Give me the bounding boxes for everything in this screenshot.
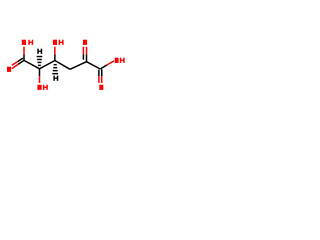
double bond C5=O vertical (ketone) [83,47,86,62]
atom O (below C6 double bond) square [99,85,103,90]
atom O (OH above C3) square [53,40,57,45]
atom O (ketone above C5) square [83,40,87,45]
hash wedge C2-H (4 dashes, widest near H above) [37,56,43,66]
atom O (left C1=O) square [7,67,11,72]
atom H (OH above C3) [59,40,64,45]
hash wedge C3-H (4 dashes, widest near H below) [52,64,58,74]
bond C6-OH diagonal up-right [100,61,114,69]
double bond C6=O vertical down [99,69,102,83]
bond C2-OH vertical down [39,69,41,83]
bond C1-C2 [24,60,40,68]
atom H (right OH) [120,58,125,63]
atom O (right OH) square [115,58,119,63]
atom O (OH below C2) square [37,85,41,90]
bond C3-C4 [55,61,70,70]
atom O (top-left OH) square [22,40,26,45]
double bond C1=O diagonal [12,58,24,69]
bond C2-C3 [40,61,55,69]
atom H (top-left OH) [28,40,33,45]
bond C3-OH vertical up [54,47,56,61]
bond C1-OH vertical [23,47,25,61]
atom H (stereo H below C3) [53,76,58,81]
atom H (stereo H above C2) [37,49,42,54]
bond C4-C5 [70,62,87,70]
atom H (OH below C2) [43,85,48,90]
bond C5-C6 [87,62,101,69]
